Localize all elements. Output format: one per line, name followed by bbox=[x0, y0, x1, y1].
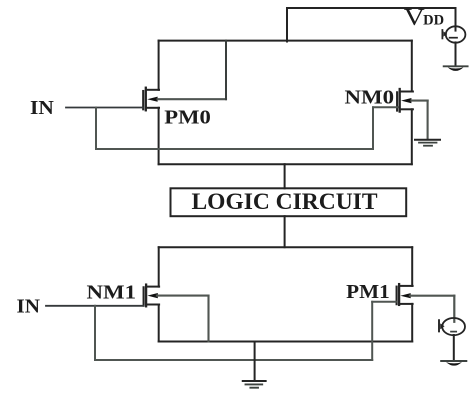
svg-text:LOGIC CIRCUIT: LOGIC CIRCUIT bbox=[192, 189, 378, 214]
svg-text:IN: IN bbox=[30, 97, 54, 119]
svg-text:PM1: PM1 bbox=[346, 281, 390, 303]
svg-text:NM0: NM0 bbox=[345, 86, 395, 108]
svg-text:PM0: PM0 bbox=[164, 107, 211, 129]
svg-text:IN: IN bbox=[17, 296, 41, 317]
svg-text:NM1: NM1 bbox=[87, 281, 137, 303]
svg-text:DD: DD bbox=[423, 12, 444, 28]
